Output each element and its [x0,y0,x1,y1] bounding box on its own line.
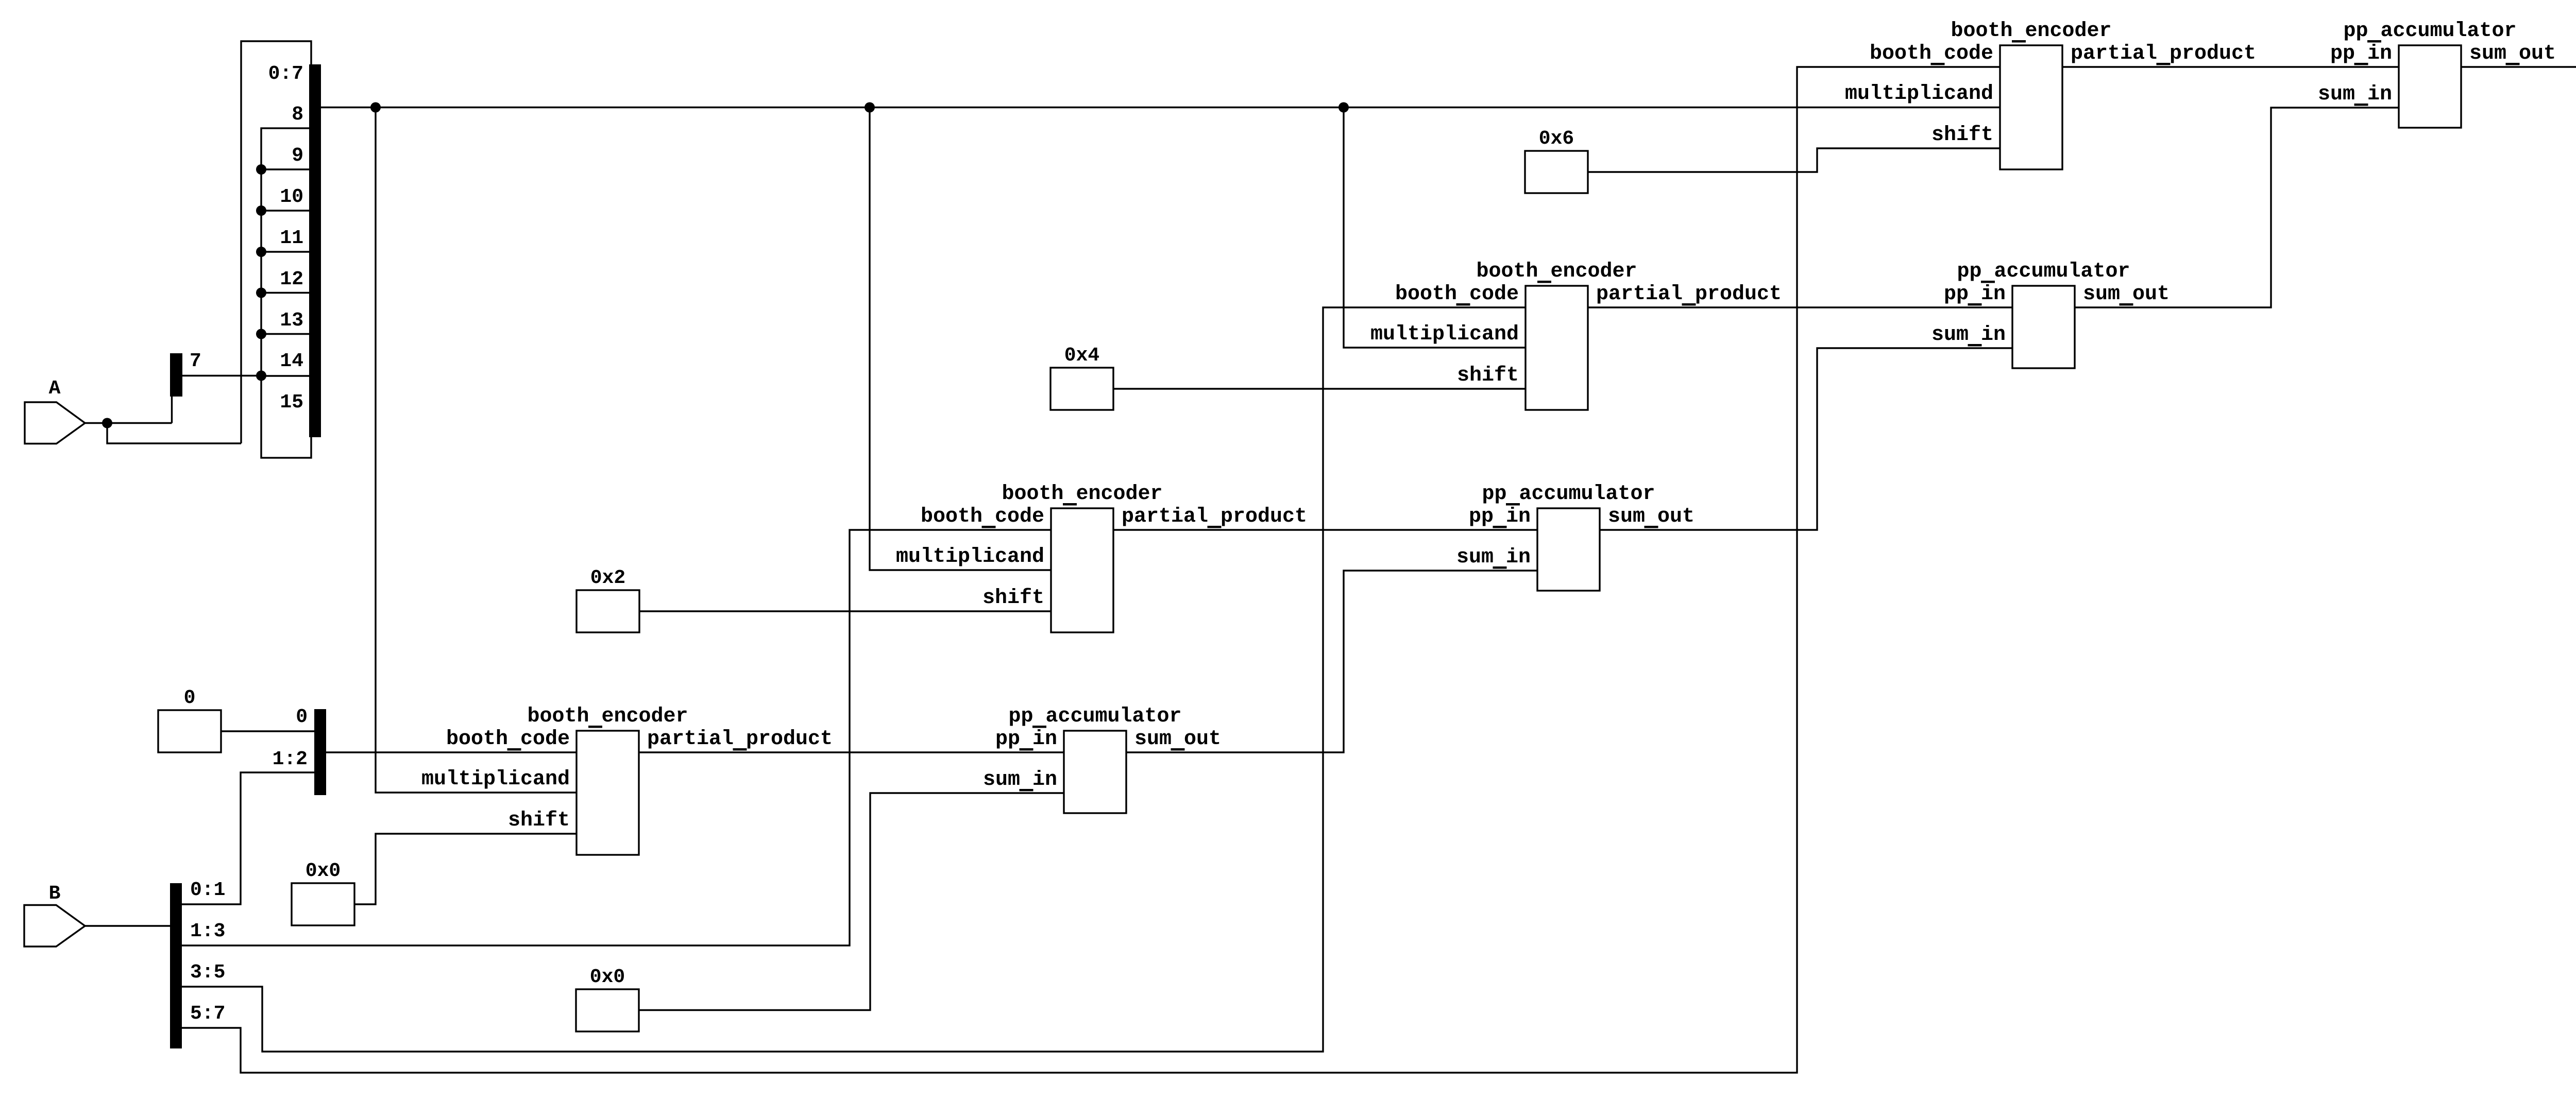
svg-text:booth encoder: booth encoder [527,705,688,728]
pp_accumulator U5 [983,705,1221,813]
svg-text:partial product: partial product [647,728,833,751]
svg-text:booth code: booth code [1395,283,1519,306]
wire multiplicand to U3 [870,108,1051,571]
svg-text:partial product: partial product [1596,283,1782,306]
svg-text:pp in: pp in [2330,42,2392,65]
svg-text:1:2: 1:2 [273,748,308,770]
constant 0x0 shift1 [292,860,354,925]
wire sum_in 1 [639,793,1064,1010]
svg-text:15: 15 [280,391,303,414]
svg-text:sum in: sum in [983,768,1057,792]
svg-text:14: 14 [280,350,303,372]
A splitter separator 3 [261,292,311,294]
A splitter separator 0 [261,168,311,170]
svg-text:multiplicand: multiplicand [1370,323,1519,346]
wire shift 2 [639,610,1051,612]
svg-text:booth code: booth code [446,728,570,751]
slice bar 7 [170,350,201,397]
junction bus tap 1 [370,102,381,113]
svg-text:0x6: 0x6 [1539,128,1574,150]
svg-text:booth encoder: booth encoder [1476,260,1637,283]
A splitter field labels [268,63,303,414]
svg-text:booth code: booth code [1870,42,1993,65]
svg-text:sum out: sum out [1608,505,1694,528]
junction net A [102,418,112,428]
svg-text:shift: shift [1457,364,1519,387]
junction splitter bit 10 [256,205,266,216]
A splitter body [261,128,311,458]
wire booth_code 2 [182,530,1051,945]
svg-text:booth code: booth code [921,505,1044,528]
wire shift 4 [1588,148,2000,172]
svg-text:booth encoder: booth encoder [1002,483,1162,506]
junction splitter bit 13 [256,329,266,339]
svg-text:shift: shift [982,587,1044,610]
svg-text:8: 8 [292,104,303,126]
svg-text:0: 0 [184,687,196,709]
constant 0 [158,687,221,752]
svg-text:B: B [49,883,61,905]
svg-text:partial product: partial product [1122,505,1307,528]
wire B to splitter [85,925,170,926]
junction splitter bit 11 [256,247,266,257]
svg-text:sum out: sum out [1134,728,1221,751]
booth_encoder U3 [1370,260,1782,410]
wire sum 2 to 3 [1600,348,2012,530]
svg-text:0x0: 0x0 [590,966,625,988]
svg-text:shift: shift [508,809,570,832]
svg-text:A: A [49,377,61,400]
wire sum_out to P [2461,66,2576,67]
svg-text:pp in: pp in [1944,283,2006,306]
A splitter separator 2 [261,251,311,252]
svg-text:sum out: sum out [2469,42,2556,65]
constant 0x4 shift3 [1050,345,1113,410]
svg-text:pp accumulator: pp accumulator [2343,20,2516,43]
wire booth_code 1 [326,751,577,753]
svg-text:sum in: sum in [1931,323,2006,347]
svg-text:partial product: partial product [2071,42,2256,65]
junction splitter bit 12 [256,288,266,298]
wire sum 3 to 4 [2075,108,2399,307]
svg-text:9: 9 [292,145,303,167]
svg-text:pp accumulator: pp accumulator [1008,705,1181,728]
svg-text:0:1: 0:1 [190,879,225,901]
wire bar 7 to splitter field 14 [182,375,261,376]
constant 0x0 sum seed [576,966,639,1031]
svg-text:10: 10 [280,186,303,208]
svg-text:0x2: 0x2 [590,567,625,589]
wire shift 3 [1113,388,1526,389]
input port A [25,377,85,444]
svg-text:sum out: sum out [2083,283,2170,306]
svg-text:multiplicand: multiplicand [896,545,1044,569]
pp_accumulator U7 [1931,260,2170,368]
svg-text:pp in: pp in [1469,505,1531,528]
junction splitter bit 9 [256,164,266,175]
booth_encoder U2 [896,483,1307,632]
svg-text:multiplicand: multiplicand [421,768,570,791]
svg-text:booth encoder: booth encoder [1951,20,2111,43]
svg-text:0:7: 0:7 [268,63,303,85]
wire partial_product 4 [2062,66,2399,67]
wire multiplicand bus A8 [321,107,2000,108]
wire multiplicand to U1 [376,108,577,793]
svg-text:13: 13 [280,309,303,332]
svg-text:sum in: sum in [1456,546,1531,569]
A splitter output bar [309,64,321,437]
svg-text:3:5: 3:5 [190,961,225,984]
svg-text:12: 12 [280,268,303,290]
wire booth_code 3 [182,307,1526,1052]
svg-text:shift: shift [1931,124,1993,147]
wire partial_product 2 [1113,529,1537,530]
A splitter input loop [241,41,311,443]
svg-text:0: 0 [296,706,308,728]
booth_encoder U4 [1845,20,2256,169]
wire shift 1 [354,834,577,904]
A splitter separator 1 [261,210,311,211]
booth_encoder U1 [421,705,833,855]
wire const 0 to concat [221,730,314,732]
wire B 0:1 to concat [182,772,314,904]
wire partial_product 1 [639,751,1064,753]
svg-text:sum in: sum in [2318,83,2392,106]
svg-text:11: 11 [280,227,303,249]
wire multiplicand to U5 [1344,108,1526,348]
junction node A14 [256,371,266,381]
pp_accumulator U6 [1456,483,1694,591]
svg-text:7: 7 [190,350,201,372]
B splitter bar [170,879,225,1048]
wire sum 1 to 2 [1126,571,1537,752]
input port B [24,883,85,947]
constant 0x2 shift2 [577,567,639,632]
pp_accumulator U8 [2318,20,2556,128]
svg-text:5:7: 5:7 [190,1003,225,1025]
svg-text:multiplicand: multiplicand [1845,82,1993,106]
A splitter separator 4 [261,333,311,335]
svg-text:pp in: pp in [995,728,1057,751]
wire A down to splitter [107,423,241,444]
wire A into bar 7 [171,397,173,423]
svg-text:pp accumulator: pp accumulator [1482,483,1655,506]
constant 0x6 shift4 [1525,128,1588,193]
wire booth_code 4 [182,67,2000,1073]
svg-text:pp accumulator: pp accumulator [1957,260,2130,283]
svg-text:0x0: 0x0 [306,860,341,882]
svg-text:1:3: 1:3 [190,920,225,942]
wire A to fanout [85,422,172,424]
wire partial_product 3 [1588,306,2012,308]
svg-text:0x4: 0x4 [1064,345,1099,367]
concat bar 0/1:2 [273,706,326,795]
junction bus tap 3 [1338,102,1349,113]
A splitter separator 5 [261,375,311,376]
junction bus tap 2 [865,102,875,113]
